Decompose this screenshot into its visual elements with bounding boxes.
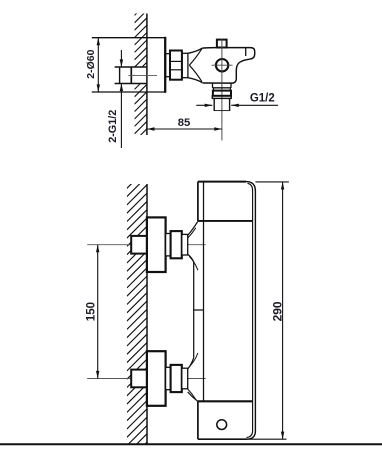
union neck (top view): [166, 54, 170, 77]
shower outlet stack: [212, 83, 214, 88]
top edge extension for 290: [255, 181, 289, 183]
svg-text:2-G1/2: 2-G1/2: [107, 110, 119, 143]
escutcheon top/bottom lines + extension lines: [92, 37, 166, 39]
washer: [182, 53, 188, 77]
dim 290: [282, 182, 284, 439]
dim 150: [97, 245, 99, 379]
handle cap line: [245, 48, 247, 56]
centerlines: [87, 244, 206, 246]
svg-text:150: 150: [86, 302, 98, 321]
svg-text:85: 85: [178, 117, 191, 129]
cartridge stem (bold): [217, 40, 227, 48]
svg-text:2-Ø60: 2-Ø60: [85, 49, 97, 78]
svg-text:G1/2: G1/2: [250, 92, 275, 104]
flare bottom mount: [188, 353, 198, 401]
dim 85: [147, 128, 222, 130]
wall line (top view): [146, 14, 148, 136]
supply stub through wall: [115, 66, 147, 68]
svg-text:290: 290: [270, 301, 284, 321]
union nuts (bold): [171, 231, 182, 258]
G1/2 dim arrows: [196, 104, 212, 106]
wall line (bottom view): [146, 184, 148, 444]
screw hole on bottom cap: [217, 420, 227, 430]
wall shanks (bold): [131, 236, 147, 254]
vertical centerline: [221, 39, 223, 141]
dim 2-Ø60: [97, 38, 99, 92]
crosshair: [212, 64, 233, 66]
valve body with handle (top view): [202, 48, 254, 84]
wall hatch (bottom view): [127, 160, 147, 450]
flare top mount: [188, 221, 198, 270]
olives: [182, 234, 188, 255]
union nut (top view, bold): [170, 51, 182, 80]
dim 2-G1/2 (arrows at stub): [120, 50, 122, 67]
union necks: [166, 234, 171, 256]
faucet body (bottom view): [198, 181, 246, 183]
escutcheons (bold): [147, 217, 166, 272]
stub centerline: [128, 74, 157, 76]
escutcheon face (bold): [164, 37, 166, 93]
page separator line: [0, 443, 382, 445]
center circle (bold): [216, 59, 228, 71]
wall hatch (top view): [135, 0, 147, 156]
trumpet bell: [188, 48, 202, 83]
